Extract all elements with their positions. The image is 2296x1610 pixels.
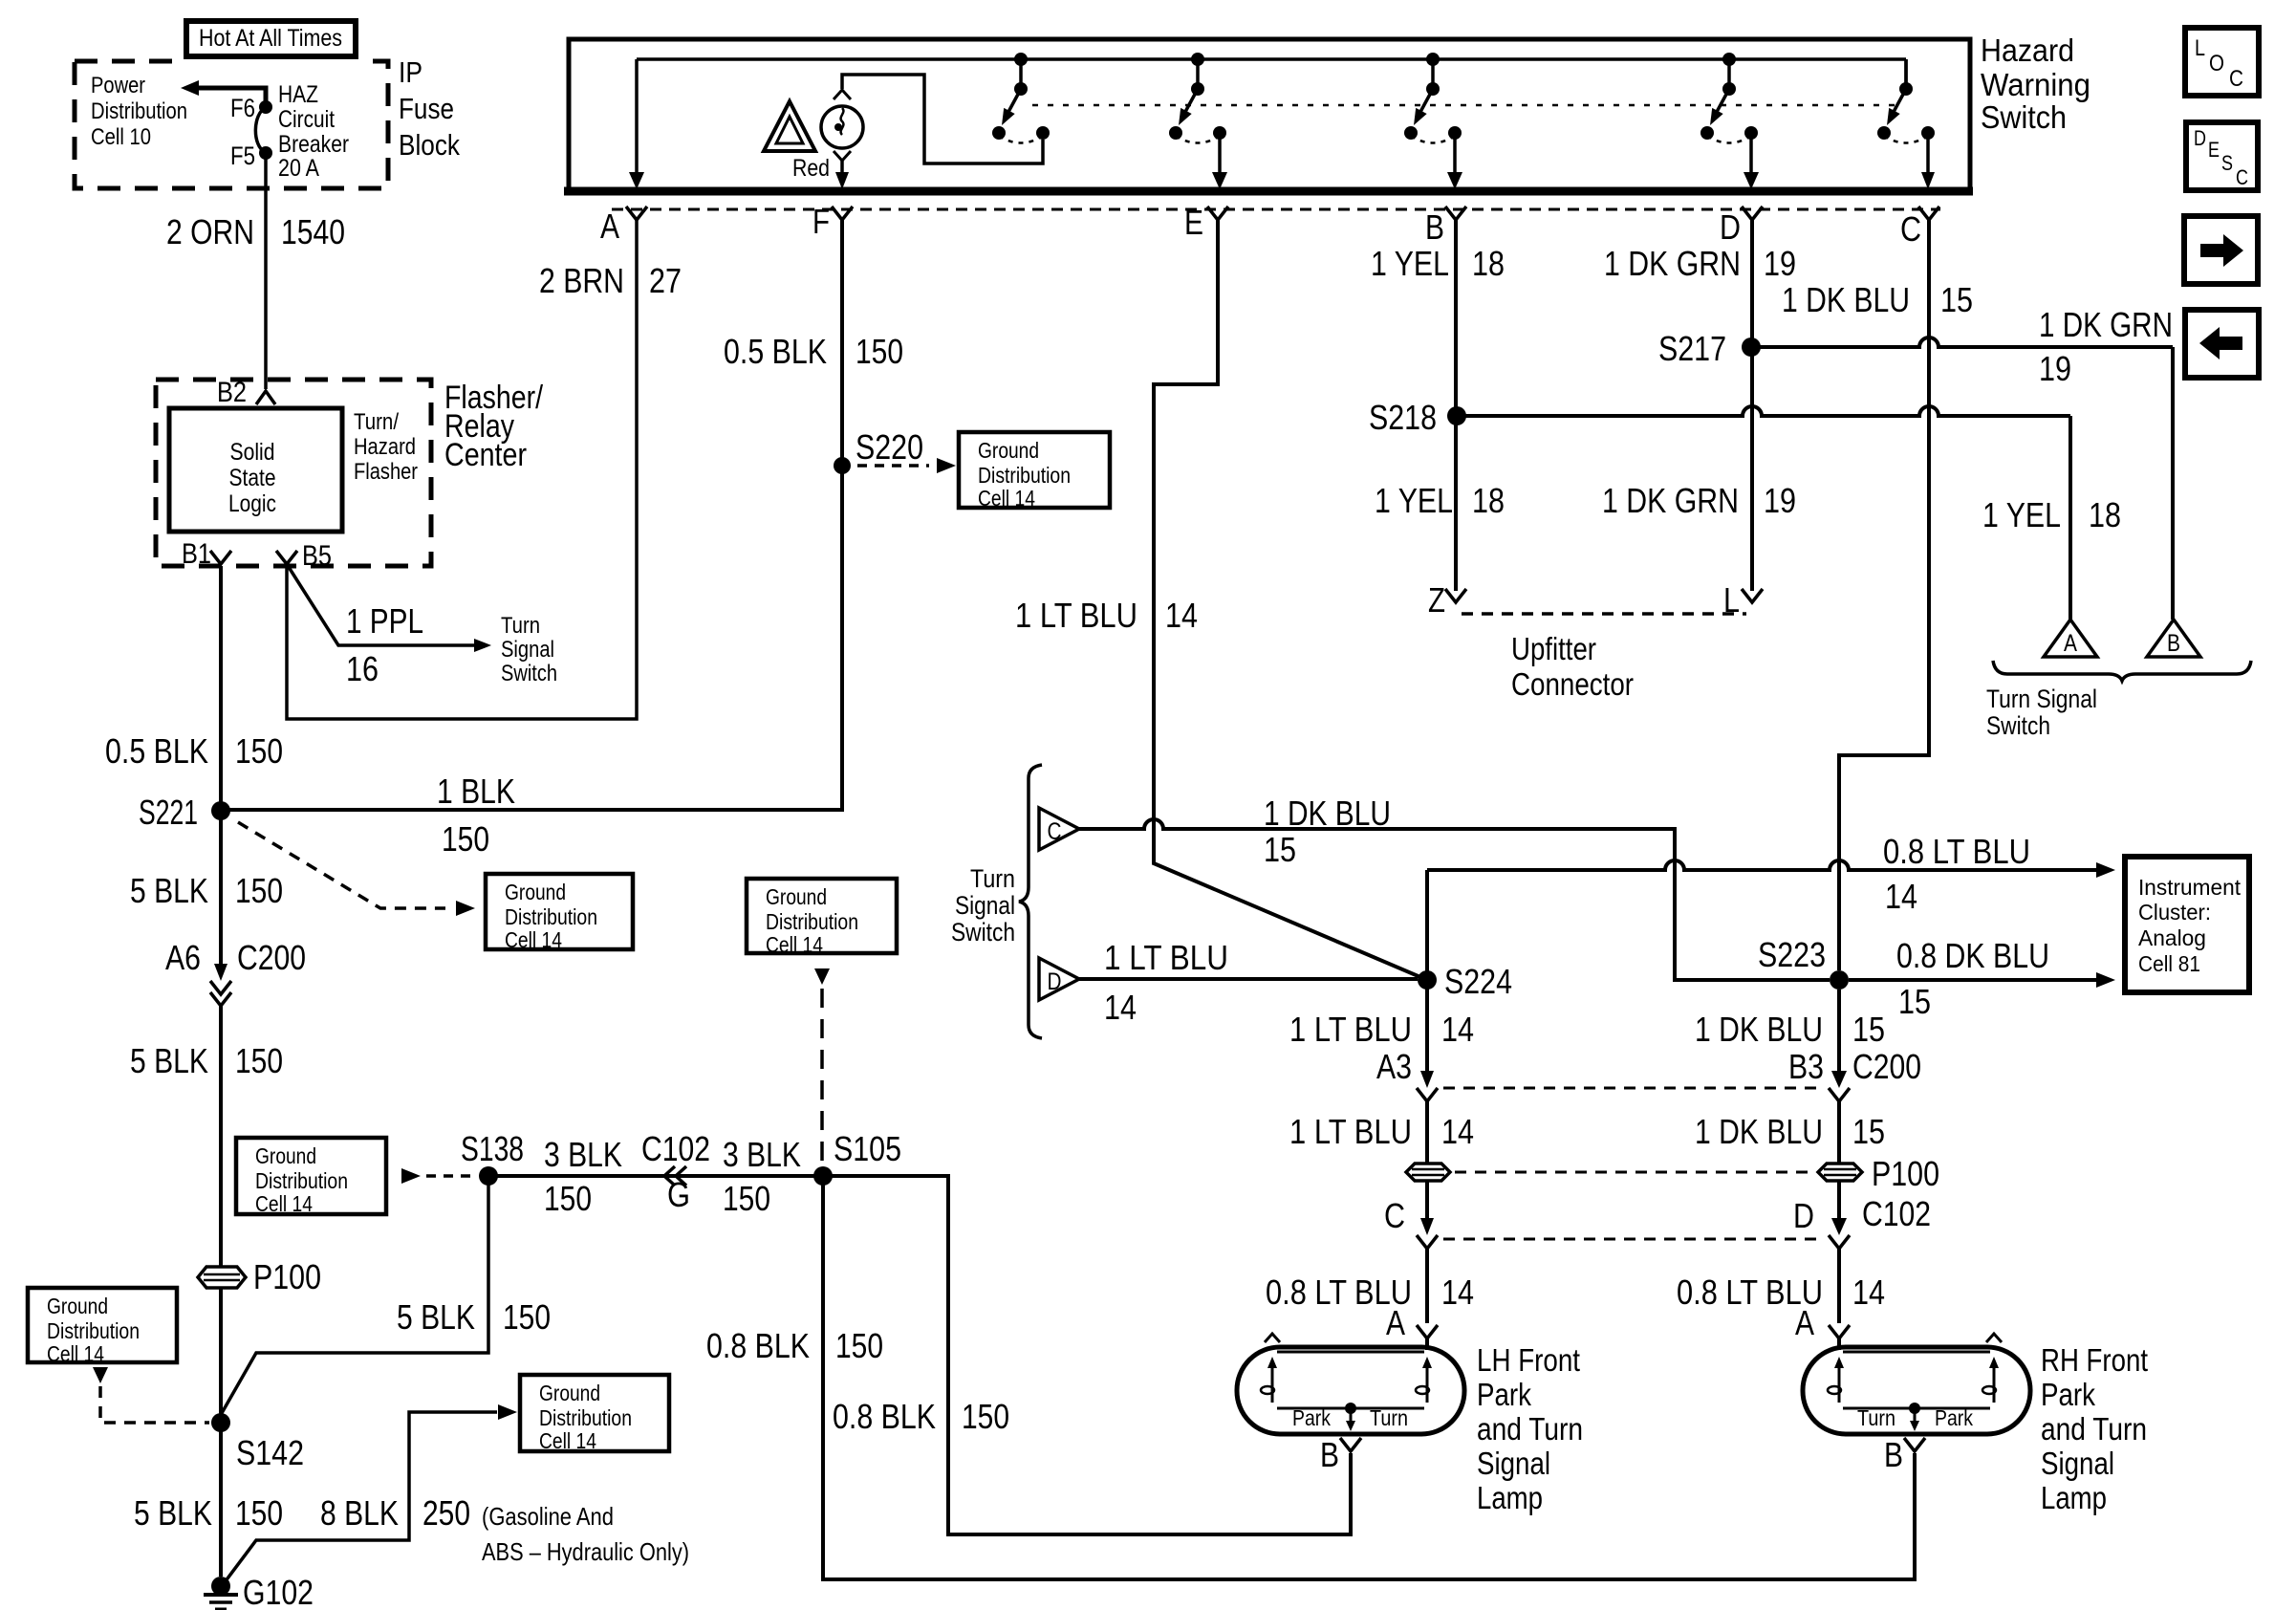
svg-text:Ground: Ground xyxy=(255,1143,316,1168)
svg-text:Hot At All Times: Hot At All Times xyxy=(199,25,342,52)
svg-text:14: 14 xyxy=(1104,988,1137,1027)
svg-text:A: A xyxy=(1386,1303,1405,1342)
svg-text:C: C xyxy=(1384,1196,1405,1235)
svg-text:Signal: Signal xyxy=(955,891,1015,920)
svg-text:150: 150 xyxy=(503,1297,551,1337)
svg-text:0.8 BLK: 0.8 BLK xyxy=(706,1326,810,1365)
svg-text:Block: Block xyxy=(399,128,460,162)
svg-text:150: 150 xyxy=(442,819,489,859)
svg-text:15: 15 xyxy=(1852,1010,1885,1049)
svg-text:14: 14 xyxy=(1165,596,1198,635)
svg-text:0.8 BLK: 0.8 BLK xyxy=(833,1397,936,1436)
svg-text:Switch: Switch xyxy=(1986,711,2050,740)
svg-text:F6: F6 xyxy=(230,94,255,122)
svg-text:B: B xyxy=(2167,630,2180,657)
svg-text:L: L xyxy=(2195,35,2205,61)
svg-text:Signal: Signal xyxy=(2041,1446,2114,1481)
svg-text:14: 14 xyxy=(1441,1010,1474,1049)
svg-text:Lamp: Lamp xyxy=(2041,1480,2107,1515)
svg-text:F: F xyxy=(812,202,830,241)
svg-text:Ground: Ground xyxy=(505,880,566,904)
svg-text:Breaker: Breaker xyxy=(278,131,349,158)
svg-text:Analog: Analog xyxy=(2138,925,2206,950)
svg-text:Turn: Turn xyxy=(1857,1405,1895,1430)
svg-text:B5: B5 xyxy=(302,540,332,572)
svg-text:Switch: Switch xyxy=(501,661,557,686)
svg-text:15: 15 xyxy=(1852,1112,1885,1151)
svg-text:1 LT BLU: 1 LT BLU xyxy=(1289,1010,1412,1049)
svg-text:B: B xyxy=(1884,1435,1903,1474)
svg-text:Ground: Ground xyxy=(766,884,827,909)
svg-text:14: 14 xyxy=(1441,1273,1474,1312)
svg-text:150: 150 xyxy=(544,1179,592,1218)
svg-text:D: D xyxy=(1793,1196,1814,1235)
svg-text:D: D xyxy=(2194,126,2206,150)
svg-text:19: 19 xyxy=(2039,349,2071,388)
svg-text:Ground: Ground xyxy=(978,438,1039,463)
svg-text:S: S xyxy=(2221,151,2233,175)
svg-text:IP: IP xyxy=(399,55,422,89)
svg-text:Lamp: Lamp xyxy=(1477,1480,1543,1515)
svg-text:150: 150 xyxy=(235,731,283,771)
svg-text:P100: P100 xyxy=(253,1257,321,1296)
svg-text:HAZ: HAZ xyxy=(278,81,318,108)
svg-text:5 BLK: 5 BLK xyxy=(130,871,208,910)
svg-text:F5: F5 xyxy=(230,141,255,170)
svg-text:250: 250 xyxy=(422,1493,470,1533)
svg-text:Circuit: Circuit xyxy=(278,106,335,133)
svg-text:Distribution: Distribution xyxy=(255,1168,348,1193)
svg-text:Distribution: Distribution xyxy=(978,463,1071,488)
svg-text:150: 150 xyxy=(835,1326,883,1365)
svg-text:Flasher: Flasher xyxy=(354,459,418,485)
svg-text:A6: A6 xyxy=(165,938,201,977)
svg-text:C: C xyxy=(2229,66,2243,92)
svg-text:Signal: Signal xyxy=(501,637,554,663)
svg-text:C: C xyxy=(1900,209,1921,249)
svg-text:C102: C102 xyxy=(641,1129,710,1168)
svg-text:19: 19 xyxy=(1764,244,1796,283)
svg-text:150: 150 xyxy=(235,1493,283,1533)
svg-text:S105: S105 xyxy=(834,1129,901,1168)
svg-text:0.8 LT BLU: 0.8 LT BLU xyxy=(1883,832,2030,871)
svg-text:18: 18 xyxy=(2089,495,2121,534)
svg-text:150: 150 xyxy=(723,1179,770,1218)
svg-text:Cell 14: Cell 14 xyxy=(47,1341,104,1366)
svg-text:16: 16 xyxy=(346,649,379,688)
svg-text:8 BLK: 8 BLK xyxy=(320,1493,399,1533)
svg-text:D: D xyxy=(1048,968,1062,995)
svg-text:G: G xyxy=(667,1175,690,1214)
svg-text:Distribution: Distribution xyxy=(505,904,597,929)
svg-text:Ground: Ground xyxy=(539,1381,600,1405)
svg-text:1 DK BLU: 1 DK BLU xyxy=(1782,280,1910,319)
svg-text:Fuse: Fuse xyxy=(399,92,454,125)
svg-text:S218: S218 xyxy=(1369,398,1437,437)
svg-text:S220: S220 xyxy=(856,427,923,467)
svg-text:1 DK GRN: 1 DK GRN xyxy=(1604,244,1741,283)
svg-text:C102: C102 xyxy=(1862,1194,1931,1233)
svg-text:1 DK BLU: 1 DK BLU xyxy=(1264,794,1391,833)
svg-text:1 LT BLU: 1 LT BLU xyxy=(1104,938,1228,977)
svg-text:18: 18 xyxy=(1472,481,1505,520)
svg-text:1 YEL: 1 YEL xyxy=(1371,244,1449,283)
svg-text:14: 14 xyxy=(1441,1112,1474,1151)
svg-text:15: 15 xyxy=(1940,280,1973,319)
svg-text:14: 14 xyxy=(1885,877,1917,916)
svg-text:Switch: Switch xyxy=(951,918,1015,946)
svg-text:1 PPL: 1 PPL xyxy=(346,601,423,641)
svg-text:3 BLK: 3 BLK xyxy=(723,1135,801,1174)
svg-text:5 BLK: 5 BLK xyxy=(134,1493,212,1533)
svg-text:S224: S224 xyxy=(1444,962,1512,1001)
svg-text:27: 27 xyxy=(649,261,682,300)
svg-text:Logic: Logic xyxy=(228,490,276,517)
svg-text:LH Front: LH Front xyxy=(1477,1342,1580,1378)
svg-text:Distribution: Distribution xyxy=(47,1318,140,1343)
svg-text:0.5 BLK: 0.5 BLK xyxy=(724,332,827,371)
svg-text:Turn: Turn xyxy=(970,864,1015,893)
svg-text:C: C xyxy=(1048,818,1062,845)
svg-text:A3: A3 xyxy=(1376,1047,1412,1086)
svg-text:Cell 14: Cell 14 xyxy=(766,932,823,957)
svg-text:E: E xyxy=(1184,203,1203,242)
svg-text:Cell 14: Cell 14 xyxy=(539,1428,596,1453)
svg-text:Instrument: Instrument xyxy=(2138,875,2242,900)
svg-text:1 YEL: 1 YEL xyxy=(1375,481,1453,520)
svg-text:B1: B1 xyxy=(182,538,211,570)
svg-text:1 BLK: 1 BLK xyxy=(437,772,515,811)
svg-text:15: 15 xyxy=(1898,982,1931,1021)
svg-text:Distribution: Distribution xyxy=(766,909,858,934)
svg-text:1 DK GRN: 1 DK GRN xyxy=(2039,305,2173,344)
svg-text:A: A xyxy=(2064,630,2077,657)
svg-text:B: B xyxy=(1425,207,1444,247)
svg-text:Cell 14: Cell 14 xyxy=(255,1191,313,1216)
svg-text:C200: C200 xyxy=(1852,1047,1921,1086)
svg-text:1 LT BLU: 1 LT BLU xyxy=(1015,596,1137,635)
svg-text:Power: Power xyxy=(91,73,145,98)
svg-text:Connector: Connector xyxy=(1511,666,1634,702)
svg-text:150: 150 xyxy=(235,1041,283,1080)
svg-text:Cluster:: Cluster: xyxy=(2138,900,2211,925)
svg-text:2 BRN: 2 BRN xyxy=(539,261,624,300)
svg-text:O: O xyxy=(2209,51,2224,76)
svg-text:1540: 1540 xyxy=(281,212,345,251)
svg-text:S142: S142 xyxy=(236,1433,304,1472)
svg-text:1 YEL: 1 YEL xyxy=(1982,495,2061,534)
svg-text:Distribution: Distribution xyxy=(91,98,187,124)
svg-text:and Turn: and Turn xyxy=(1477,1411,1583,1447)
svg-text:P100: P100 xyxy=(1872,1154,1939,1193)
svg-text:Distribution: Distribution xyxy=(539,1405,632,1430)
svg-text:S221: S221 xyxy=(139,793,198,832)
svg-text:S223: S223 xyxy=(1758,935,1826,974)
svg-text:A: A xyxy=(1795,1303,1814,1342)
svg-text:Park: Park xyxy=(1477,1377,1531,1412)
svg-text:Park: Park xyxy=(1935,1405,1973,1430)
svg-text:15: 15 xyxy=(1264,830,1296,869)
svg-text:(Gasoline And: (Gasoline And xyxy=(482,1502,614,1531)
svg-text:Turn/: Turn/ xyxy=(354,409,399,435)
svg-text:Cell 14: Cell 14 xyxy=(978,486,1035,511)
svg-text:150: 150 xyxy=(856,332,903,371)
svg-text:Signal: Signal xyxy=(1477,1446,1550,1481)
svg-text:5 BLK: 5 BLK xyxy=(130,1041,208,1080)
svg-text:1 DK BLU: 1 DK BLU xyxy=(1695,1010,1823,1049)
svg-text:A: A xyxy=(600,207,619,246)
svg-text:3 BLK: 3 BLK xyxy=(544,1135,622,1174)
svg-text:Switch: Switch xyxy=(1981,99,2067,135)
svg-text:Red: Red xyxy=(792,155,830,182)
svg-text:G102: G102 xyxy=(243,1573,314,1610)
svg-text:Ground: Ground xyxy=(47,1294,108,1318)
svg-text:Solid: Solid xyxy=(230,439,275,466)
svg-text:Warning: Warning xyxy=(1981,67,2090,102)
svg-text:Z: Z xyxy=(1428,580,1445,620)
svg-text:1 DK BLU: 1 DK BLU xyxy=(1695,1112,1823,1151)
svg-text:18: 18 xyxy=(1472,244,1505,283)
svg-text:Upfitter: Upfitter xyxy=(1511,631,1596,666)
svg-text:State: State xyxy=(229,465,276,491)
svg-text:5 BLK: 5 BLK xyxy=(397,1297,475,1337)
svg-text:150: 150 xyxy=(235,871,283,910)
svg-text:14: 14 xyxy=(1852,1273,1885,1312)
svg-text:C: C xyxy=(2236,165,2248,189)
svg-text:Turn Signal: Turn Signal xyxy=(1986,685,2097,713)
svg-text:1 LT BLU: 1 LT BLU xyxy=(1289,1112,1412,1151)
svg-text:0.8 DK BLU: 0.8 DK BLU xyxy=(1896,936,2049,975)
svg-text:Hazard: Hazard xyxy=(354,434,416,460)
svg-text:D: D xyxy=(1720,207,1741,247)
svg-text:Cell 81: Cell 81 xyxy=(2138,951,2200,976)
svg-text:ABS – Hydraulic Only): ABS – Hydraulic Only) xyxy=(482,1537,689,1566)
svg-text:RH Front: RH Front xyxy=(2041,1342,2148,1378)
svg-text:Center: Center xyxy=(444,437,527,473)
svg-text:E: E xyxy=(2208,138,2220,162)
svg-text:1 DK GRN: 1 DK GRN xyxy=(1602,481,1739,520)
svg-text:B: B xyxy=(1320,1435,1339,1474)
svg-text:2 ORN: 2 ORN xyxy=(166,212,254,251)
svg-text:S217: S217 xyxy=(1658,329,1726,368)
svg-text:19: 19 xyxy=(1764,481,1796,520)
svg-text:20 A: 20 A xyxy=(278,155,319,182)
svg-text:Turn: Turn xyxy=(501,613,540,639)
svg-text:S138: S138 xyxy=(461,1129,524,1168)
svg-text:Park: Park xyxy=(2041,1377,2095,1412)
svg-text:0.5 BLK: 0.5 BLK xyxy=(105,731,208,771)
svg-text:Cell 14: Cell 14 xyxy=(505,927,562,952)
svg-text:Hazard: Hazard xyxy=(1981,33,2074,68)
svg-text:B3: B3 xyxy=(1788,1047,1824,1086)
svg-text:C200: C200 xyxy=(237,938,306,977)
svg-text:Park: Park xyxy=(1292,1405,1331,1430)
svg-text:Cell 10: Cell 10 xyxy=(91,124,151,150)
svg-text:Turn: Turn xyxy=(1370,1405,1408,1430)
svg-text:150: 150 xyxy=(962,1397,1009,1436)
svg-text:and Turn: and Turn xyxy=(2041,1411,2147,1447)
